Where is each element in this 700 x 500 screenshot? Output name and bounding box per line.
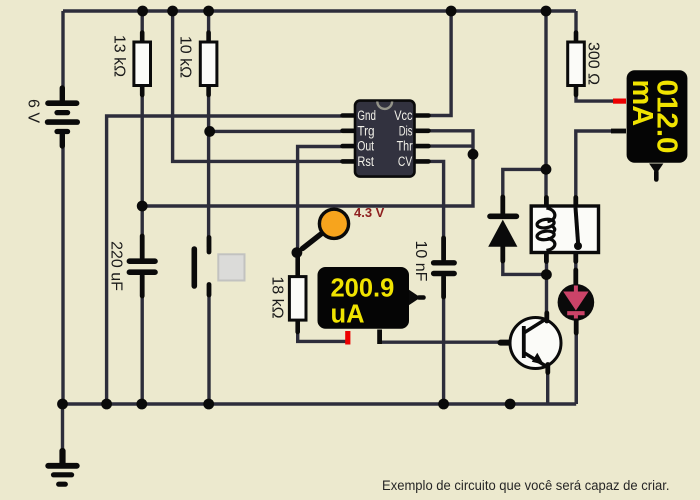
wire Trg net: [210, 130, 342, 133]
node rail C2 bottom: [438, 399, 449, 410]
wire LED to rail riser: [575, 313, 578, 404]
wire Rst net: [173, 11, 342, 161]
wire Dis net: [142, 131, 473, 206]
node rail Rst riser: [167, 6, 178, 17]
wire battery top lead: [61, 11, 64, 90]
wire LED bottom riser: [575, 329, 578, 404]
wire Out net: [298, 147, 342, 253]
wire 13k top lead: [140, 11, 143, 42]
svg-text:uA: uA: [331, 300, 365, 328]
transistor Q1: [501, 313, 562, 373]
capacitor C2 10nF: [434, 238, 455, 297]
wire battery bottom to rail: [61, 144, 64, 404]
resistor R4 300ohm: [568, 33, 585, 96]
svg-text:Thr: Thr: [397, 139, 414, 154]
wire top rail: [63, 9, 576, 12]
node rail R2 top: [203, 6, 214, 17]
svg-text:200.9: 200.9: [331, 275, 395, 303]
svg-text:10 nF: 10 nF: [412, 241, 429, 282]
LED D2: [558, 270, 595, 333]
wire uA meter to base: [380, 341, 502, 344]
wire Vcc net: [429, 11, 451, 116]
voltage probe P1: [303, 209, 349, 248]
wire switch to rail: [207, 290, 210, 404]
wire probe node to 18k: [296, 253, 299, 278]
node rail switch bottom: [203, 399, 214, 410]
svg-text:300 Ω: 300 Ω: [585, 42, 602, 85]
resistor R3 18k: [289, 257, 306, 332]
relay RL1: [531, 198, 598, 262]
wire diode bottom branch: [503, 247, 547, 275]
node Thr tap: [468, 149, 479, 160]
ammeter M2 mA: [611, 70, 687, 179]
wire coil top column: [544, 11, 547, 199]
IC U1 pin labels right: [394, 108, 413, 169]
resistor R2 10k: [200, 33, 217, 96]
node probe tap: [292, 247, 303, 258]
wire CV net: [429, 161, 444, 263]
wire diode top branch: [503, 169, 546, 198]
svg-text:mA: mA: [626, 80, 658, 127]
svg-text:Vcc: Vcc: [394, 108, 412, 123]
wire Gnd pin net: [107, 116, 342, 404]
node rail R1 top: [137, 6, 148, 17]
node R1 C1 Dis: [137, 201, 148, 212]
node Trg tap: [204, 126, 215, 137]
node ground rail left: [57, 399, 68, 410]
wire 10k to switch: [207, 86, 210, 248]
svg-text:Rst: Rst: [357, 154, 374, 169]
svg-text:10 kΩ: 10 kΩ: [177, 36, 194, 78]
wire meter minus to relay blade: [576, 131, 626, 199]
IC U1 pin labels left: [357, 108, 376, 169]
push switch SW1: [194, 238, 244, 296]
ammeter M2 reading 012.0 mA: [626, 80, 683, 154]
node rail C1 bottom: [136, 399, 147, 410]
svg-text:18 kΩ: 18 kΩ: [269, 276, 286, 318]
svg-text:Out: Out: [357, 139, 374, 154]
node rail Gnd drop: [101, 399, 112, 410]
wire Thr net: [429, 144, 473, 147]
wire 10k top lead: [207, 11, 210, 42]
svg-text:13 kΩ: 13 kΩ: [111, 35, 128, 77]
wire emitter drop: [546, 368, 549, 404]
node rail Vcc riser: [446, 6, 457, 17]
svg-text:Gnd: Gnd: [357, 108, 376, 123]
node diode bottom: [541, 269, 552, 280]
diode D1: [488, 197, 517, 261]
battery B1 6V: [48, 88, 78, 146]
ammeter M1 uA: [318, 267, 424, 345]
wire 10nF to rail: [442, 273, 445, 404]
resistor R1 13k: [134, 33, 151, 96]
svg-text:6 V: 6 V: [25, 99, 42, 123]
wire node to 220uF: [140, 206, 143, 262]
svg-text:4.3 V: 4.3 V: [354, 205, 385, 220]
svg-text:CV: CV: [398, 154, 412, 169]
IC U1 555 timer: [343, 101, 429, 177]
node diode top: [541, 164, 552, 175]
node rail coil riser: [541, 6, 552, 17]
wire bottom rail: [63, 402, 576, 405]
svg-text:Trg: Trg: [357, 123, 374, 138]
ammeter M1 reading 200.9 uA: [331, 275, 395, 329]
node rail dot: [505, 399, 516, 410]
wire relay blade to LED: [574, 253, 577, 289]
svg-text:220 uF: 220 uF: [107, 241, 124, 291]
ground: [48, 451, 77, 484]
wire 18k to uA meter: [298, 320, 346, 341]
wire collector riser: [545, 253, 548, 319]
capacitor C1 220uF: [129, 236, 155, 296]
wire 13k bottom to node: [140, 86, 143, 207]
svg-text:Dis: Dis: [399, 123, 413, 138]
wire 220uF to rail: [140, 272, 143, 404]
wire 300ohm to mA meter: [576, 86, 613, 102]
wire ground drop: [61, 404, 64, 452]
svg-text:Exemplo de circuito que você s: Exemplo de circuito que você será capaz …: [382, 478, 670, 493]
wire 300ohm top lead: [574, 11, 577, 42]
